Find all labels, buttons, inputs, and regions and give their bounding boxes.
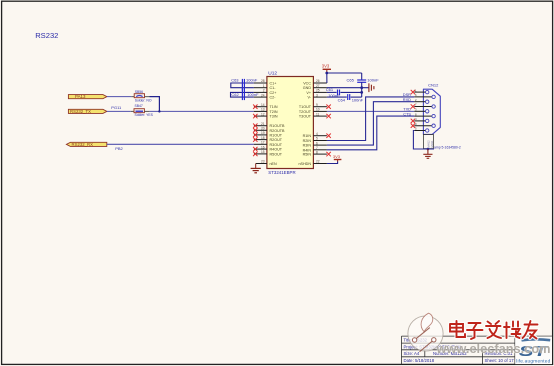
svg-text:nSHDN: nSHDN xyxy=(299,162,312,166)
no-connect X R4OUT xyxy=(253,147,257,151)
connector CN12 DB9 outline xyxy=(423,83,440,135)
wire R4IN to CTS xyxy=(327,116,414,150)
U12 left pin names xyxy=(270,82,285,167)
svg-text:Sheet: 10 of 17: Sheet: 10 of 17 xyxy=(485,358,515,363)
port RS232_TX xyxy=(68,109,107,114)
svg-text:R3OUT: R3OUT xyxy=(270,143,283,147)
svg-text:21: 21 xyxy=(261,122,265,126)
wire port RS232_TX to SB47 xyxy=(107,110,131,112)
no-connect X DB9 pin9 xyxy=(411,124,415,128)
svg-text:3V3: 3V3 xyxy=(333,154,341,159)
junction dot GND/C65 xyxy=(360,86,363,89)
svg-text:100nF: 100nF xyxy=(367,78,379,83)
svg-text:CTS: CTS xyxy=(403,111,411,116)
svg-text:RS232_RX: RS232_RX xyxy=(72,142,94,147)
junction dot VCC/3V3 xyxy=(325,72,328,75)
wire R2IN to DSR xyxy=(327,97,414,141)
capacitor C61 xyxy=(326,87,362,98)
svg-text:T2OUT: T2OUT xyxy=(299,110,312,114)
svg-text:23: 23 xyxy=(261,160,265,164)
svg-text:R1IN: R1IN xyxy=(303,134,312,138)
svg-text:R4OUT: R4OUT xyxy=(270,148,283,152)
svg-text:Solder: YES: Solder: YES xyxy=(135,113,154,117)
svg-text:C65: C65 xyxy=(347,78,355,83)
svg-text:RXD: RXD xyxy=(403,97,411,102)
svg-text:C2-: C2- xyxy=(270,96,277,100)
wire nSHDN to 3V3 xyxy=(327,162,338,164)
svg-text:Size: A4: Size: A4 xyxy=(404,351,420,356)
svg-text:RS232_TX: RS232_TX xyxy=(70,109,91,114)
svg-text:1: 1 xyxy=(263,84,265,88)
svg-text:PA13: PA13 xyxy=(75,94,86,99)
svg-text:100nF: 100nF xyxy=(246,77,258,82)
no-connect X T1OUT xyxy=(326,105,330,109)
no-connect X R2OUTB xyxy=(253,128,257,132)
svg-text:C2+: C2+ xyxy=(270,91,277,95)
svg-text:GND: GND xyxy=(303,86,312,90)
svg-text:17: 17 xyxy=(261,141,265,145)
svg-text:R1OUT: R1OUT xyxy=(270,133,283,137)
no-connect X DB9 pin7 xyxy=(411,104,415,108)
no-connect X T1IN xyxy=(253,105,257,109)
svg-text:www.elecfans.com: www.elecfans.com xyxy=(436,341,551,356)
junction dot C61 xyxy=(360,91,363,94)
wire DB9 pin5 to shield ground xyxy=(413,131,434,150)
svg-text:R2IN: R2IN xyxy=(303,139,312,143)
no-connect X R2OUT xyxy=(253,137,257,141)
no-connect X DB9 pin4 xyxy=(411,119,415,123)
U12 right pin names xyxy=(299,82,312,167)
power 3V3 at nSHDN xyxy=(333,154,342,162)
svg-text:24: 24 xyxy=(261,93,265,97)
junction dot shield ground xyxy=(427,148,430,151)
svg-text:R1OUTB: R1OUTB xyxy=(270,124,285,128)
svg-text:T1IN: T1IN xyxy=(270,105,278,109)
svg-text:R2OUT: R2OUT xyxy=(270,138,283,142)
svg-text:3V3: 3V3 xyxy=(322,63,330,68)
svg-text:R5IN: R5IN xyxy=(303,153,312,157)
wire RS232_RX to R3OUT xyxy=(107,143,254,145)
svg-text:100nF: 100nF xyxy=(352,97,364,102)
svg-text:25: 25 xyxy=(316,89,320,93)
svg-text:U12: U12 xyxy=(268,71,277,77)
port PA13 xyxy=(68,94,107,99)
svg-text:12: 12 xyxy=(261,112,265,116)
svg-text:3: 3 xyxy=(316,93,318,97)
ground (decoupling, sideways) xyxy=(369,83,374,92)
junction dot SB net xyxy=(158,110,160,112)
title block texts xyxy=(404,337,515,363)
svg-text:T3OUT: T3OUT xyxy=(299,115,312,119)
svg-text:PG11: PG11 xyxy=(111,105,122,110)
svg-text:V+: V+ xyxy=(306,91,311,95)
port RS232_RX xyxy=(66,142,106,147)
svg-text:16: 16 xyxy=(261,145,265,149)
svg-text:C1-: C1- xyxy=(270,86,277,90)
wire GND row xyxy=(327,87,369,89)
CN12 pin circles xyxy=(426,90,436,132)
svg-text:C63: C63 xyxy=(231,77,239,82)
svg-text:amp 5-1634580-2: amp 5-1634580-2 xyxy=(434,146,461,150)
svg-text:19: 19 xyxy=(261,131,265,135)
U12 right pin stubs xyxy=(313,83,327,164)
svg-text:R2OUTB: R2OUTB xyxy=(270,129,285,133)
no-connect X R1IN xyxy=(326,134,330,138)
svg-text:10: 10 xyxy=(316,108,320,112)
capacitor C64 xyxy=(327,94,364,102)
wire port PA13 to SB56 xyxy=(107,96,131,98)
no-connect X R5OUT xyxy=(253,152,257,156)
capacitor C63 xyxy=(231,77,258,90)
svg-text:5: 5 xyxy=(316,137,318,141)
svg-text:C64: C64 xyxy=(338,97,346,102)
watermark elecfans logo circle xyxy=(408,313,443,352)
svg-text:28: 28 xyxy=(261,79,265,83)
svg-text:20: 20 xyxy=(261,127,265,131)
no-connect X T3IN xyxy=(253,114,257,118)
svg-text:T1OUT: T1OUT xyxy=(299,105,312,109)
capacitor C62 xyxy=(231,88,260,100)
svg-text:Date: 5/18/2018: Date: 5/18/2018 xyxy=(404,358,435,363)
svg-text:26: 26 xyxy=(316,79,320,83)
svg-text:11: 11 xyxy=(316,112,320,116)
no-connect X R1OUTB xyxy=(253,124,257,128)
no-connect X T3OUT xyxy=(326,114,330,118)
svg-text:Solder: NO: Solder: NO xyxy=(135,99,152,103)
svg-text:22: 22 xyxy=(316,160,320,164)
svg-text:nEN: nEN xyxy=(270,162,278,166)
U12 left pin stubs xyxy=(254,83,267,164)
power 3V3 at VCC xyxy=(322,63,331,73)
ground at DB9 shield xyxy=(423,149,432,158)
svg-text:VCC: VCC xyxy=(303,82,311,86)
U12 left pin numbers xyxy=(261,79,265,164)
svg-text:4: 4 xyxy=(316,132,318,136)
no-connect X DB9 pin1 xyxy=(411,90,415,94)
watermark Chinese characters 电子发烧友 xyxy=(450,321,538,339)
wire V+/V- caps to GND vertical xyxy=(361,88,363,97)
svg-text:9: 9 xyxy=(316,103,318,107)
svg-text:T2IN: T2IN xyxy=(270,110,278,114)
wire SB56 to junction xyxy=(145,96,150,98)
svg-text:ST3241EBPR: ST3241EBPR xyxy=(268,170,295,175)
svg-text:13: 13 xyxy=(261,108,265,112)
wire VCC to 3V3 xyxy=(327,73,362,83)
svg-text:27: 27 xyxy=(316,84,320,88)
title block xyxy=(402,336,553,364)
svg-text:R3IN: R3IN xyxy=(303,144,312,148)
svg-text:6: 6 xyxy=(316,141,318,145)
svg-text:T3IN: T3IN xyxy=(270,115,278,119)
ST logo xyxy=(515,336,552,364)
svg-text:RS232: RS232 xyxy=(35,31,58,40)
svg-text:C1+: C1+ xyxy=(270,82,277,86)
svg-text:R5OUT: R5OUT xyxy=(270,152,283,156)
svg-text:PB2: PB2 xyxy=(115,146,123,151)
no-connect X R5IN xyxy=(326,152,330,156)
solder bridge SB47 xyxy=(134,104,154,117)
ground at nEN xyxy=(251,164,261,173)
CN12 pin stubs xyxy=(414,92,432,130)
CN12 shield box xyxy=(423,134,433,148)
svg-text:8: 8 xyxy=(316,150,318,154)
CN12 pin numbers xyxy=(415,88,417,130)
svg-text:14: 14 xyxy=(261,103,265,107)
wire T2OUT to DB9 TXD xyxy=(327,110,414,112)
svg-text:18: 18 xyxy=(261,136,265,140)
svg-text:CN12: CN12 xyxy=(428,83,439,88)
IC U12 ST3241EBPR xyxy=(267,71,314,175)
svg-text:15: 15 xyxy=(261,150,265,154)
solder bridge SB56 xyxy=(134,90,152,103)
no-connect X R1OUT xyxy=(253,133,257,137)
svg-text:2: 2 xyxy=(263,89,265,93)
svg-text:life.augmented: life.augmented xyxy=(516,359,550,365)
capacitor C65 xyxy=(347,73,380,88)
wire R3IN to RXD xyxy=(327,102,414,145)
wire SB47 to T2IN xyxy=(144,110,149,112)
U12 right pin numbers xyxy=(316,79,320,164)
svg-text:C61: C61 xyxy=(326,87,334,92)
svg-text:SB47: SB47 xyxy=(135,104,143,108)
